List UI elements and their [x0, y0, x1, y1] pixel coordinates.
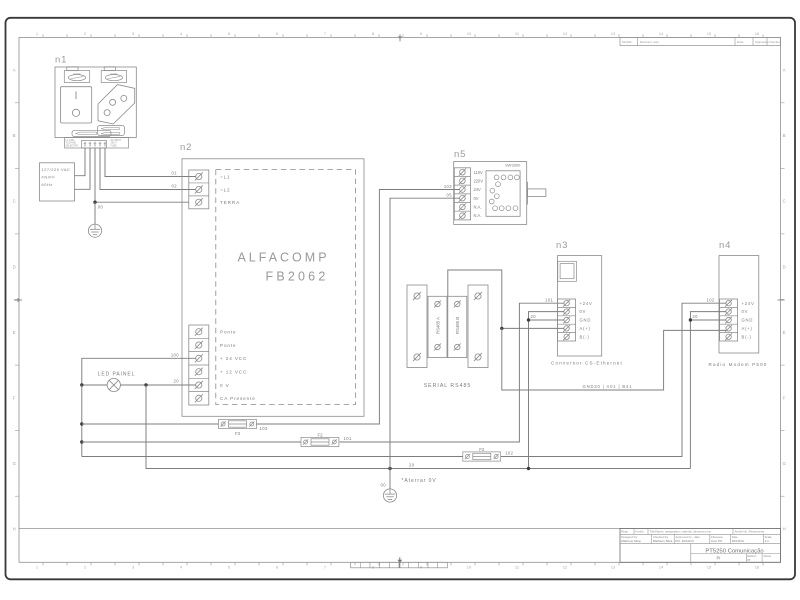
wire net 01 n1 pin 5 to n2 L1	[105, 148, 196, 177]
svg-text:n2: n2	[180, 142, 192, 153]
svg-text:TERRA: TERRA	[220, 200, 240, 205]
svg-text:12: 12	[563, 31, 568, 36]
wire net 100 n2 +24VCC to rail	[82, 358, 196, 385]
svg-text:12: 12	[563, 565, 568, 570]
svg-text:02: 02	[172, 184, 178, 189]
svg-text:FUSE: FUSE	[110, 72, 117, 76]
svg-text:n1: n1	[55, 55, 67, 66]
pin label + 12 VCC	[220, 370, 247, 375]
svg-text:H: H	[783, 527, 786, 532]
fuse F2 upper	[301, 437, 339, 446]
pin label n3 0V	[580, 309, 587, 314]
label net 100	[171, 352, 179, 357]
wire n1 pin 1 to supply L	[75, 148, 86, 176]
component SERIAL RS485 isolator left plate	[407, 285, 427, 368]
wire net 20 LED to n2 0V	[120, 384, 195, 386]
svg-text:250 V: 250 V	[111, 143, 117, 145]
svg-text:Matheus Silva: Matheus Silva	[653, 539, 673, 543]
pin label n5 0V	[474, 196, 479, 201]
svg-text:N.A.: N.A.	[474, 205, 482, 210]
svg-text:Konfid.: Konfid.	[635, 530, 644, 534]
svg-text:1:1: 1:1	[765, 539, 770, 543]
svg-text:C: C	[13, 199, 16, 204]
svg-text:+24V: +24V	[580, 301, 593, 306]
shaft of n5	[528, 182, 546, 205]
svg-text:20: 20	[692, 314, 698, 319]
svg-text:101: 101	[545, 297, 553, 302]
svg-text:SERIAL RS485: SERIAL RS485	[424, 383, 472, 389]
fuse holder right of n1	[101, 67, 126, 83]
wire net 20 rail to LED	[82, 384, 107, 386]
svg-text:60Hz: 60Hz	[42, 182, 53, 187]
pin label n4 B(-)	[742, 334, 752, 339]
label cable GND20 A01 B41	[583, 384, 633, 389]
svg-text:00: 00	[381, 483, 387, 488]
pin label n5 110V	[474, 170, 484, 175]
svg-text:20: 20	[174, 379, 180, 384]
svg-text:G: G	[783, 461, 786, 466]
svg-text:0V: 0V	[742, 309, 749, 314]
pin label n5 24V	[474, 187, 482, 192]
terminal block n5	[454, 168, 470, 220]
junction rail F2 branch	[80, 440, 83, 443]
pin label CA Presente	[220, 396, 256, 401]
pin label n5 N.A.	[474, 205, 482, 210]
wire cable GND20 A01 B41	[502, 328, 726, 390]
wire net 02 n1 pin 4 to n2 L2	[100, 148, 196, 190]
svg-text:C: C	[783, 199, 786, 204]
wire revision table strip	[620, 37, 781, 45]
svg-text:*Aterrar 0V: *Aterrar 0V	[402, 478, 437, 484]
svg-text:N.A.: N.A.	[474, 213, 482, 218]
wire frame centre registration marks	[14, 34, 785, 302]
svg-text:14: 14	[659, 31, 664, 36]
svg-text:01: 01	[172, 171, 178, 176]
pin label n4 +24V	[742, 301, 755, 306]
wire earth stub from net 00	[94, 202, 96, 224]
svg-text:Sheet: Sheet	[764, 554, 772, 558]
wire n3 0V to GND tie	[529, 312, 565, 469]
svg-text:PI: PI	[748, 558, 751, 562]
svg-text:VOLTAGE: VOLTAGE	[66, 142, 77, 145]
wire print scale bar	[351, 557, 448, 568]
pin label ~L1	[220, 174, 231, 179]
pin label n3 B(-)	[580, 334, 590, 339]
junction rail F3 branch	[80, 422, 83, 425]
wire net 102 fuse F2 to n4 +24V	[501, 303, 726, 456]
svg-text:103: 103	[260, 426, 268, 431]
IEC inlet connector of n1	[98, 85, 135, 124]
svg-text:24V: 24V	[474, 187, 482, 192]
wire n4 GND tap	[690, 319, 726, 321]
svg-text:CA Presente: CA Presente	[220, 396, 256, 401]
wire RS485 to cable bus	[448, 270, 502, 328]
svg-text:~L1: ~L1	[220, 174, 231, 179]
pin label n3 A(+)	[580, 326, 591, 331]
junction n3 GND	[527, 318, 530, 321]
wire bottom fold line	[19, 527, 781, 529]
svg-text:Modific.: Modific.	[622, 40, 633, 44]
svg-text:B(-): B(-)	[742, 334, 752, 339]
rocker switch of n1	[61, 87, 92, 123]
fuse F3	[219, 419, 257, 428]
svg-text:220V: 220V	[474, 178, 484, 183]
svg-text:GND20 | A01 | B41: GND20 | A01 | B41	[583, 384, 633, 389]
label net 101 at n3	[545, 297, 553, 302]
label F2 upper	[317, 432, 323, 437]
svg-text:Article No. Pertencente: Article No. Pertencente	[735, 530, 765, 534]
svg-text:E: E	[13, 330, 16, 335]
svg-text:16/10/13: 16/10/13	[732, 539, 744, 543]
svg-text:D: D	[13, 264, 16, 269]
svg-text:D: D	[783, 264, 786, 269]
junction net 00	[93, 201, 96, 204]
svg-text:+24V: +24V	[742, 301, 755, 306]
svg-text:Com PO: Com PO	[711, 539, 723, 543]
component SERIAL RS485 isolator right plate	[468, 285, 488, 368]
svg-text:Resp.: Resp.	[621, 530, 629, 534]
wire net 20 drop to 0V bus	[146, 385, 390, 469]
component RS485 A module	[428, 296, 447, 357]
wire net 05 n5 0V to bus	[390, 198, 460, 468]
pin label TERRA	[220, 200, 240, 205]
svg-text:F3: F3	[235, 431, 241, 436]
svg-text:10: 10	[467, 31, 472, 36]
terminal block n3	[558, 299, 576, 341]
pin label Ponte	[220, 330, 237, 335]
junction n3 0V on bus	[527, 467, 530, 470]
svg-text:127/220 VAC: 127/220 VAC	[42, 167, 71, 172]
svg-text:0 V: 0 V	[220, 383, 230, 388]
component n3 Conversor CS-Ethernet	[551, 240, 623, 365]
svg-text:F: F	[13, 396, 16, 401]
svg-text:~L2: ~L2	[220, 187, 231, 192]
label net 102 at n4	[707, 297, 715, 302]
svg-text:13: 13	[611, 565, 616, 570]
svg-text:05: 05	[447, 193, 453, 198]
component RS485 B module	[448, 296, 467, 357]
svg-text:Signature: Signature	[755, 40, 769, 44]
wire net 102 rail to fuse F2 lower	[82, 456, 463, 458]
pin label + 24 VCC	[220, 356, 247, 361]
title block	[620, 528, 781, 562]
svg-text:B: B	[783, 133, 786, 138]
label net 00 at earth	[381, 483, 387, 488]
svg-text:A(+): A(+)	[742, 326, 753, 331]
wire n3 GND tap	[529, 319, 565, 321]
svg-text:F: F	[783, 396, 786, 401]
svg-text:20: 20	[531, 314, 537, 319]
svg-text:0V: 0V	[580, 309, 587, 314]
svg-text:16: 16	[755, 565, 760, 570]
svg-text:AC INPUT: AC INPUT	[111, 139, 122, 142]
svg-text:15: 15	[707, 31, 712, 36]
label net 20 on bus	[409, 463, 415, 468]
svg-text:B(-): B(-)	[580, 334, 590, 339]
svg-text:10: 10	[467, 565, 472, 570]
terminal flange of n1	[65, 138, 129, 149]
svg-text:00: 00	[98, 204, 104, 209]
component n1 power entry module	[55, 55, 136, 138]
svg-text:RS485 A: RS485 A	[435, 317, 440, 334]
label net 20 at n3	[531, 314, 537, 319]
pin label 0 V	[220, 383, 230, 388]
pin label n5 220V	[474, 178, 484, 183]
svg-text:A: A	[13, 68, 16, 73]
svg-text:L1 N PE: L1 N PE	[66, 140, 75, 142]
svg-text:G: G	[13, 461, 16, 466]
label net 05 at n5	[447, 193, 453, 198]
svg-text:Title/Name, designation, mater: Title/Name, designation, material, dimen…	[650, 530, 712, 534]
svg-text:Ponte: Ponte	[220, 330, 237, 335]
svg-text:Matheus Silva: Matheus Silva	[621, 539, 641, 543]
label Aterrar 0V	[402, 478, 437, 484]
component LED PAINEL lamp	[98, 371, 136, 391]
svg-text:+ 24 VCC: + 24 VCC	[220, 356, 247, 361]
svg-text:SELECTOR: SELECTOR	[66, 145, 79, 147]
fuse holder left of n1	[64, 67, 89, 83]
svg-text:GND: GND	[742, 318, 754, 323]
svg-text:101: 101	[344, 436, 352, 441]
ground protective earth symbol main	[383, 489, 396, 502]
pin label n4 0V	[742, 309, 749, 314]
junction 0V bus earth tap	[388, 467, 391, 470]
pin label n5 N.A.	[474, 213, 482, 218]
svg-text:n5: n5	[454, 149, 466, 160]
wire n4 0V to GND tie	[690, 312, 726, 469]
label F3	[235, 431, 241, 436]
svg-text:E: E	[783, 330, 786, 335]
terminal block n2 DC output	[189, 325, 209, 405]
wire net 101 fuse F2 to n3 +24V	[340, 303, 565, 442]
svg-text:110V: 110V	[474, 170, 484, 175]
svg-text:FB2062: FB2062	[266, 270, 329, 284]
svg-text:Checked: Checked	[769, 40, 781, 44]
terminal block n4	[720, 299, 738, 341]
svg-text:SW3300: SW3300	[505, 163, 521, 168]
label net 101 at fuse	[344, 436, 352, 441]
svg-text:100: 100	[171, 352, 179, 357]
svg-text:102: 102	[707, 297, 715, 302]
svg-text:GND: GND	[580, 318, 592, 323]
svg-text:F2: F2	[479, 447, 485, 452]
wire earth stub	[389, 469, 391, 490]
pin label ~L2	[220, 187, 231, 192]
svg-text:FUSE: FUSE	[111, 145, 118, 147]
svg-text:H: H	[13, 527, 16, 532]
label net 20 at n2	[174, 379, 180, 384]
wire net 00 n1 pin 3 to n2 TERRA	[95, 148, 189, 202]
component n2 ALFACOMP FB2062	[180, 142, 364, 416]
junction net 20 drop	[144, 383, 147, 386]
junction cable bus at n3	[500, 327, 503, 330]
svg-text:A: A	[783, 68, 786, 73]
component AC supply 127/220 VAC box	[40, 163, 75, 201]
label net 00 at junction	[98, 204, 104, 209]
wire net 103 fuse F3 to n5 24V	[256, 190, 459, 425]
wire net 101 rail to fuse F2	[82, 441, 301, 443]
pin label n3 GND	[580, 318, 592, 323]
svg-text:A(+): A(+)	[580, 326, 591, 331]
wire net 103 rail to fuse F3	[82, 423, 219, 425]
svg-text:Conversor CS-Ethernet: Conversor CS-Ethernet	[551, 360, 623, 365]
wire n1 pin 2 to supply N	[75, 148, 91, 189]
pin label n4 GND	[742, 318, 754, 323]
svg-text:Ponte: Ponte	[220, 343, 237, 348]
svg-text:B: B	[13, 133, 16, 138]
svg-text:102: 102	[505, 450, 513, 455]
wire +24V rail	[81, 385, 83, 457]
voltage selector labels of n1	[72, 125, 125, 136]
component n4 Radio Modem P500	[708, 240, 767, 367]
svg-text:Date: Date	[737, 40, 744, 44]
label net 02	[172, 184, 178, 189]
svg-text:FN/FF: FN/FF	[42, 175, 56, 180]
svg-text:0V: 0V	[474, 196, 479, 201]
label net 103 at fuse	[260, 426, 268, 431]
wire net 20 0V bus	[390, 468, 690, 470]
label SERIAL RS485	[424, 383, 472, 389]
svg-text:ALFACOMP: ALFACOMP	[237, 251, 329, 265]
svg-text:14: 14	[659, 565, 664, 570]
terminal block n2 AC input	[189, 170, 209, 209]
label net 20 at n4	[692, 314, 698, 319]
pin label n3 +24V	[580, 301, 593, 306]
svg-text:20: 20	[409, 463, 415, 468]
rotary switch contacts of n5	[486, 171, 520, 217]
svg-text:13: 13	[611, 31, 616, 36]
svg-text:PI: PI	[717, 556, 721, 561]
svg-text:FUSE: FUSE	[74, 72, 81, 76]
pin label n4 A(+)	[742, 326, 753, 331]
fuse F2 lower	[463, 452, 501, 461]
svg-text:+ 12 VCC: + 12 VCC	[220, 370, 247, 375]
svg-text:F2: F2	[317, 432, 323, 437]
svg-text:15: 15	[707, 565, 712, 570]
ground protective earth symbol below n1	[88, 224, 101, 237]
svg-text:Revision note: Revision note	[640, 40, 659, 44]
svg-text:103: 103	[444, 184, 452, 189]
label net 103 at n5	[444, 184, 452, 189]
svg-text:PO. 16/10/13: PO. 16/10/13	[675, 539, 694, 543]
label net 102 at fuse	[505, 450, 513, 455]
junction n4 GND	[689, 318, 692, 321]
svg-text:n3: n3	[556, 240, 568, 251]
wire n3 A+ to cable bus	[502, 327, 564, 329]
component n5 selector switch SW3300	[454, 149, 527, 224]
svg-text:LED PAINEL: LED PAINEL	[98, 371, 136, 377]
svg-text:16: 16	[755, 31, 760, 36]
label F2 lower	[479, 447, 485, 452]
junction rail at LED	[80, 383, 83, 386]
svg-text:Radio Modem P500: Radio Modem P500	[708, 362, 767, 367]
svg-text:n4: n4	[719, 240, 731, 251]
pin label Ponte	[220, 343, 237, 348]
svg-text:RS485 B: RS485 B	[455, 317, 460, 334]
label net 01	[172, 171, 178, 176]
